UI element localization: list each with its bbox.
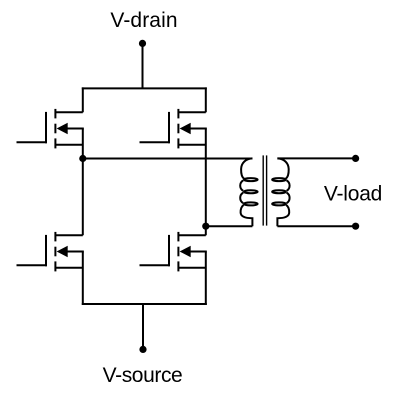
channel dash source [54, 261, 56, 271]
wire secondary top lead [277, 157, 355, 159]
secondary mid bump 1 [287, 180, 290, 191]
primary mid bump 2 [240, 193, 243, 204]
body lead [66, 251, 84, 253]
body arrow [57, 246, 68, 257]
transistor Q2 (top-right MOSFET) [140, 109, 207, 148]
drain lead [55, 234, 82, 236]
gate lead [17, 141, 47, 143]
transformer core line right [266, 155, 268, 225]
source lead [55, 267, 82, 269]
gate lead [140, 264, 170, 266]
drain lead [178, 111, 205, 113]
node A junction dot [79, 155, 86, 162]
node V-load top terminal dot [352, 155, 359, 162]
gate lead [140, 141, 170, 143]
wire node A to primary top [83, 158, 253, 160]
wire left vertical rail-to-drain [82, 87, 84, 112]
channel dash body [54, 247, 56, 257]
drain lead [55, 111, 82, 113]
wire right vertical body-to-bottom-rail [205, 252, 207, 306]
gate bar [168, 112, 170, 143]
gate lead [17, 264, 47, 266]
inductor primary winding (left coil) [240, 158, 257, 226]
wire right vertical rail-to-drain [205, 87, 207, 112]
node V-load bottom terminal dot [352, 223, 359, 230]
secondary mid bump 2 [287, 193, 290, 204]
channel dash source [177, 261, 179, 271]
channel dash body [54, 124, 56, 134]
channel dash drain [177, 232, 179, 242]
body lead [66, 128, 84, 130]
channel dash drain [54, 109, 56, 119]
wire bottom rail [82, 303, 207, 305]
body arrow [180, 246, 191, 257]
wire secondary bottom lead [277, 225, 355, 227]
wire right vertical body-to-node-B [205, 129, 207, 227]
drain lead [178, 234, 205, 236]
wire right vertical node-B-to-drain Q4 [205, 226, 207, 235]
secondary bottom bump [277, 205, 289, 226]
source lead [178, 267, 205, 269]
primary loop ellipse 1 [244, 178, 258, 181]
transistor Q1 (top-left MOSFET) [17, 109, 84, 148]
node B junction dot [202, 223, 209, 230]
gate bar [168, 235, 170, 266]
wire V-source stem [142, 304, 144, 349]
primary loop ellipse 3 [244, 202, 258, 205]
wire V-drain stem [142, 43, 144, 88]
channel dash body [177, 124, 179, 134]
gate bar [45, 112, 47, 143]
body arrow [180, 123, 191, 134]
gate bar [45, 235, 47, 266]
primary loop ellipse 2 [244, 190, 258, 193]
wire left vertical node-A-to-drain Q3 [82, 159, 84, 236]
secondary loop ellipse 1 [272, 178, 286, 181]
wire node B to primary bottom [206, 225, 253, 227]
node V-drain terminal dot [139, 40, 146, 47]
transistor Q4 (bottom-right MOSFET) [140, 232, 207, 272]
node V-source terminal dot [139, 346, 146, 353]
wire top rail [82, 87, 207, 89]
channel dash source [177, 138, 179, 148]
primary top bump [241, 158, 252, 179]
body lead [189, 128, 207, 130]
inductor secondary winding (right coil) [272, 158, 289, 226]
svg-text:V-load: V-load [324, 182, 382, 205]
primary bottom bump [241, 205, 253, 226]
channel dash source [54, 138, 56, 148]
transistor Q3 (bottom-left MOSFET) [17, 232, 84, 272]
channel dash drain [177, 109, 179, 119]
body arrow [57, 123, 68, 134]
source lead [178, 144, 205, 146]
source lead [55, 144, 82, 146]
transformer core line left [262, 155, 264, 225]
secondary loop ellipse 3 [272, 202, 286, 205]
body lead [189, 251, 207, 253]
svg-text:V-drain: V-drain [110, 9, 177, 32]
svg-text:V-source: V-source [103, 364, 183, 387]
primary mid bump 1 [240, 180, 243, 191]
wire left vertical body-to-node-A [82, 129, 84, 159]
channel dash drain [54, 232, 56, 242]
secondary loop ellipse 2 [272, 190, 286, 193]
wire left vertical body-to-bottom-rail [82, 252, 84, 306]
channel dash body [177, 247, 179, 257]
secondary top bump [277, 158, 288, 179]
